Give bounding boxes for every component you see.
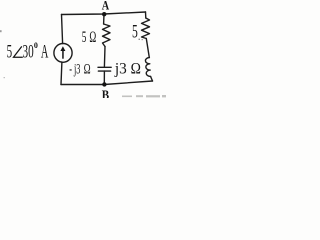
svg-text:B: B (102, 88, 110, 98)
inductor j3 ohm (145, 58, 150, 77)
svg-text:Ω: Ω (84, 62, 91, 78)
wire right upper (145, 12, 147, 18)
svg-text:- j3: - j3 (69, 62, 80, 78)
scan artifact bottom right text (122, 95, 166, 97)
scan specks right of 5 (139, 39, 143, 41)
source label angle symbol (14, 46, 23, 57)
resistor 5 (right branch) (142, 18, 150, 39)
wire right lower (151, 77, 153, 82)
svg-text:5: 5 (132, 21, 138, 42)
svg-text:0: 0 (34, 40, 38, 50)
svg-text:Ω: Ω (89, 29, 96, 46)
node B dot (102, 82, 106, 86)
capacitor -j3 ohm bottom plate (98, 70, 110, 72)
wire middle upper (103, 14, 105, 24)
svg-text:30: 30 (23, 41, 34, 62)
wire middle (103, 47, 106, 67)
svg-text:j3: j3 (114, 61, 127, 78)
svg-text:Ω: Ω (131, 61, 141, 78)
resistor 5 ohm (middle branch) (103, 24, 111, 47)
wire bottom (61, 81, 153, 85)
current source circle (54, 44, 72, 63)
svg-text:5: 5 (7, 41, 13, 62)
capacitor -j3 ohm top plate (98, 66, 111, 68)
svg-text:5: 5 (82, 29, 87, 46)
svg-text:A: A (41, 41, 49, 62)
svg-text:A: A (102, 0, 110, 12)
scan artifact left edge (0, 30, 2, 32)
wire right middle (146, 39, 149, 58)
scan speck lower left (4, 77, 5, 78)
wire left lower (60, 62, 63, 85)
node A dot (102, 12, 106, 16)
current source arrow (60, 46, 65, 59)
wire left upper (62, 15, 63, 44)
wire top (62, 12, 146, 15)
wire middle lower (103, 71, 105, 84)
